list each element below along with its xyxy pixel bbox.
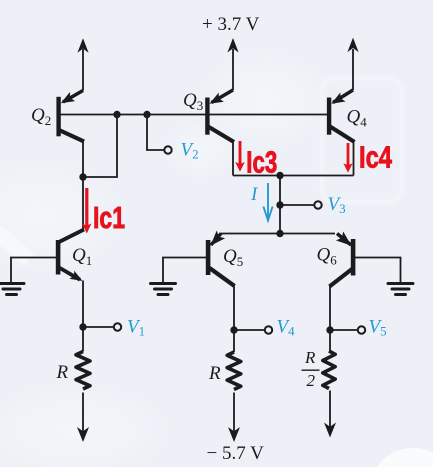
svg-text:R: R bbox=[208, 363, 221, 384]
node: V1 junction bbox=[79, 323, 86, 330]
wire: Q1 emitter vertical bbox=[82, 281, 84, 328]
ground (Q1 base) bbox=[0, 284, 24, 295]
node: Q2 collector junction bbox=[79, 173, 86, 180]
wire: +3.7V supply lead above Q4 bbox=[352, 49, 354, 90]
node: collector rail junction bbox=[276, 172, 283, 179]
svg-text:R: R bbox=[56, 362, 69, 383]
svg-text:2: 2 bbox=[307, 371, 316, 390]
wire: resistor R1 to negative supply arrow bbox=[82, 393, 84, 433]
wire: emitter rail Q5-Q6 bbox=[220, 233, 335, 235]
wire: Q6 collector vertical bbox=[329, 285, 331, 330]
wire: +3.7V supply lead above Q3 bbox=[232, 49, 234, 90]
current arrow I bbox=[263, 183, 272, 221]
wire: Q5 collector vertical bbox=[233, 285, 235, 330]
terminal V3 bbox=[314, 201, 321, 208]
svg-text:Ic1: Ic1 bbox=[93, 200, 125, 235]
wire: V1 node to resistor R1 bbox=[82, 327, 84, 352]
terminal V4 bbox=[265, 326, 272, 333]
terminal V5 bbox=[358, 326, 365, 333]
wire: Q3 collector vertical bbox=[232, 141, 234, 176]
svg-text:R: R bbox=[304, 348, 316, 367]
wire: resistor R2 to negative supply arrow bbox=[233, 393, 235, 433]
wire: Q1 base to ground bbox=[11, 258, 56, 283]
wire: +3.7V supply lead above Q2 bbox=[82, 49, 84, 91]
wire: Q4 collector vertical bbox=[353, 141, 355, 176]
wire: Q5 base to ground bbox=[163, 258, 206, 283]
negative supply arrow below R2 bbox=[228, 427, 240, 442]
svg-text:− 5.7 V: − 5.7 V bbox=[207, 443, 265, 464]
transistor Q2 bbox=[31, 91, 84, 142]
wire: Q2 base-collector tie bbox=[83, 115, 117, 178]
transistor Q5 bbox=[206, 231, 243, 287]
transistor Q1 bbox=[56, 230, 92, 282]
wire: V4 node to resistor R2 bbox=[233, 330, 235, 352]
current arrow Ic4 bbox=[343, 143, 352, 173]
wire: V3 tap lead bbox=[280, 204, 315, 206]
terminal V1 bbox=[114, 323, 121, 330]
node: V5 junction bbox=[326, 326, 333, 333]
node: emitter rail junction bbox=[276, 230, 283, 237]
transistor Q4 bbox=[327, 90, 367, 142]
current arrow Ic1 bbox=[82, 188, 91, 234]
wire: V1 tap lead bbox=[83, 326, 114, 328]
wire: Q2 collector vertical bbox=[82, 140, 84, 178]
transistor Q6 bbox=[317, 232, 356, 287]
resistor R3 (R/2) bbox=[302, 348, 336, 390]
wire: V5 node to resistor R3 bbox=[329, 330, 331, 351]
wire: resistor R3 to negative supply arrow bbox=[329, 391, 331, 428]
node: Q2 base junction bbox=[113, 111, 120, 118]
resistor R2 bbox=[208, 352, 241, 390]
wire: V5 tap lead bbox=[330, 329, 358, 331]
svg-text:Ic3: Ic3 bbox=[246, 144, 277, 179]
node: V4 junction bbox=[230, 326, 237, 333]
wire: Q2 collector to Q1 collector bbox=[82, 177, 84, 230]
negative supply arrow below R1 bbox=[77, 427, 89, 442]
power arrow above Q3 bbox=[227, 38, 238, 53]
current arrow Ic3 bbox=[235, 141, 245, 172]
power arrow above Q2 bbox=[77, 38, 88, 53]
wire: Q6 base to ground bbox=[355, 258, 401, 283]
wire: V2 tap lead bbox=[147, 115, 165, 151]
svg-text:+ 3.7 V: + 3.7 V bbox=[202, 14, 260, 35]
power arrow above Q4 bbox=[347, 38, 358, 53]
node: V3 junction bbox=[276, 201, 283, 208]
wire: collector rail Q3-Q4 bbox=[233, 175, 354, 177]
wire: base rail Q2-Q3-Q4 bbox=[59, 114, 330, 116]
resistor R1 bbox=[56, 352, 91, 390]
svg-text:Ic4: Ic4 bbox=[359, 140, 393, 175]
ground (Q5 base) bbox=[151, 284, 176, 295]
wire: central current branch bbox=[279, 176, 281, 234]
negative supply arrow below R3 bbox=[324, 423, 336, 438]
wire: V4 tap lead bbox=[234, 329, 265, 331]
terminal V2 bbox=[164, 146, 171, 153]
ground (Q6 base) bbox=[388, 284, 413, 295]
transistor Q3 bbox=[183, 90, 234, 142]
node: V2 tap junction bbox=[143, 111, 150, 118]
